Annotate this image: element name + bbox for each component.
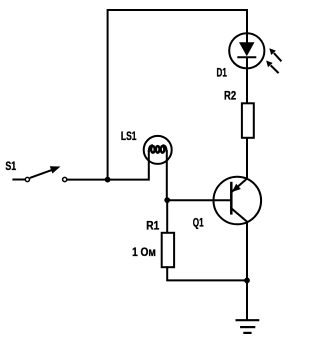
- junction dot: left rail / switch wire: [105, 177, 111, 183]
- svg-text:D1: D1: [217, 66, 228, 79]
- transistor Q1 (PNP): [214, 177, 262, 225]
- junction dot: base node: [164, 197, 170, 203]
- wire: R2 to Q1 emitter: [246, 138, 248, 179]
- resistor R1: [162, 233, 174, 267]
- svg-text:R2: R2: [224, 90, 236, 103]
- wire: LS1 left lead down to switch wire: [148, 150, 150, 181]
- wire: switch S1 to LS1 left lead: [67, 179, 149, 181]
- svg-text:Q1: Q1: [193, 216, 204, 229]
- light arrow 2 into D1: [266, 61, 279, 74]
- wire: R1 bottom to ground node: [167, 266, 247, 280]
- svg-text:R1: R1: [146, 219, 159, 232]
- resistor R2: [242, 103, 254, 138]
- wire: Q1 collector down to ground: [246, 221, 248, 320]
- switch S1: [12, 166, 66, 181]
- wire: base node down to resistor R1: [166, 200, 168, 233]
- wire: D1 cathode to resistor R2: [246, 57, 248, 103]
- wire: top rail: [108, 9, 247, 11]
- wire: right rail from top rail down to LED D1 anode: [246, 9, 248, 43]
- svg-text:LS1: LS1: [121, 130, 137, 143]
- sounder LS1: [144, 136, 172, 164]
- wire: base node to Q1 base: [167, 199, 231, 201]
- wire: LS1 right lead down to base node: [166, 150, 168, 200]
- light arrow 1 into D1: [269, 48, 281, 61]
- LED (photodiode) D1: [229, 33, 264, 68]
- svg-text:1 Ом: 1 Ом: [132, 246, 156, 259]
- ground symbol: [236, 320, 260, 333]
- svg-text:S1: S1: [5, 160, 16, 173]
- junction dot: ground node: [244, 278, 250, 284]
- wire: left rail from top rail down to switch node: [107, 9, 109, 180]
